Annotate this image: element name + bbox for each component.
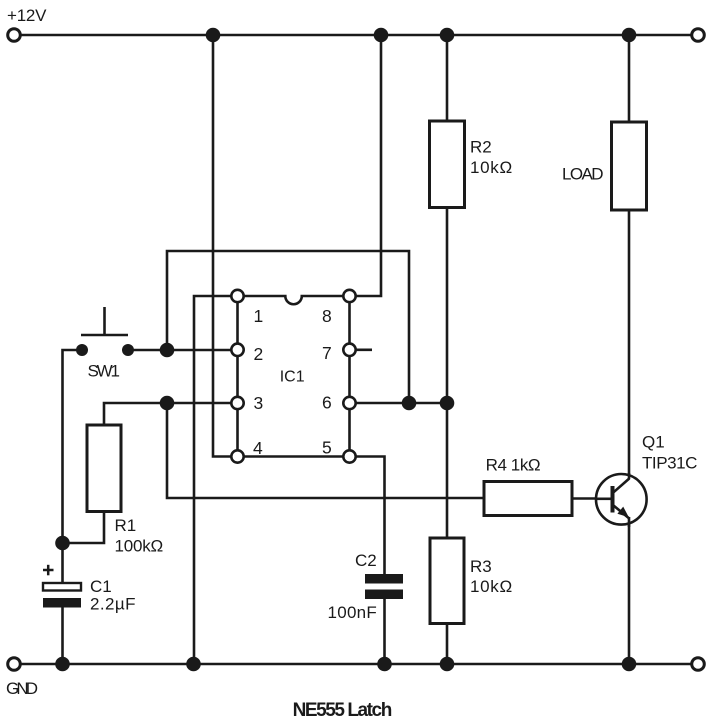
IC1 pin 2 (231, 344, 263, 364)
svg-text:LOAD: LOAD (562, 165, 604, 184)
wire +12V rail to R2 top (446, 35, 449, 121)
svg-text:GND: GND (6, 679, 38, 698)
svg-text:2: 2 (254, 344, 264, 364)
wire C2 bottom to GND rail (383, 599, 386, 664)
transistor Q1 (595, 433, 697, 528)
wire R4 to Q1 base (572, 497, 611, 500)
op-amp IC1 body (555 DIP outline with notch) (238, 296, 350, 457)
svg-text:C2: C2 (355, 551, 377, 570)
svg-text:TIP31C: TIP31C (642, 454, 697, 473)
svg-text:IC1: IC1 (280, 369, 305, 386)
node +12V/LOAD (622, 28, 637, 43)
IC1 pin 7 (322, 343, 356, 363)
wire C1 bottom plate to GND rail (61, 608, 64, 665)
node dots on +12V rail (206, 28, 637, 43)
IC1 pin 5 (322, 437, 356, 462)
wire +12V rail to pin 4 (vertical x=213) (213, 35, 231, 457)
wire pin 7 stub (350, 348, 373, 351)
svg-text:R1: R1 (115, 516, 137, 535)
node GND/C2 (377, 657, 392, 672)
svg-text:2.2µF: 2.2µF (90, 595, 136, 614)
svg-text:R4 1kΩ: R4 1kΩ (486, 456, 541, 475)
node dots on GND rail (55, 657, 636, 672)
load (562, 122, 647, 210)
svg-text:4: 4 (253, 438, 263, 458)
IC1 pin 4 (231, 438, 263, 463)
wire pin 8 to +12V rail (vertical x=381) (350, 35, 382, 296)
IC1 pin 8 (322, 290, 356, 326)
node R1/C1/SW1 (55, 536, 70, 551)
node GND/pin1 (186, 657, 201, 672)
svg-text:3: 3 (254, 393, 264, 413)
wire SW1 right contact to pin 2 (128, 349, 238, 352)
node GND/Q1 emitter (622, 657, 637, 672)
svg-text:10kΩ: 10kΩ (470, 577, 512, 596)
wire pin3 node down and right to R4 (167, 403, 484, 498)
wire SW1 left contact to left vertical (63, 350, 83, 543)
node pin6/R2/R3 (440, 396, 455, 411)
terminal +12V right (692, 29, 705, 42)
terminal GND left (8, 658, 21, 671)
terminal GND right (692, 658, 705, 671)
node R1/pin3 (160, 396, 175, 411)
IC1 pin 6 (322, 393, 356, 413)
wire pin 1 to GND rail (vertical x=194) (194, 296, 238, 664)
node GND/C1 (55, 657, 70, 672)
IC1 pin 3 (231, 393, 263, 413)
node pin6 link (402, 396, 417, 411)
wire R2 bottom to pin6 node and down to R3 top (446, 208, 449, 539)
svg-text:10kΩ: 10kΩ (470, 158, 512, 177)
svg-text:100nF: 100nF (328, 603, 377, 622)
svg-text:5: 5 (322, 437, 332, 457)
node +12V/R2 (440, 28, 455, 43)
wire pin 5 to C2 top (350, 457, 385, 575)
svg-text:100kΩ: 100kΩ (115, 537, 164, 556)
wire R1 top to pin 3 (104, 403, 238, 425)
wire R3 bottom to GND rail (446, 624, 449, 665)
svg-text:R3: R3 (470, 557, 492, 576)
node SW1/pin2 (160, 343, 175, 358)
svg-text:1: 1 (254, 306, 264, 326)
wire C1 node to C1 top plate (61, 543, 64, 583)
svg-text:Q1: Q1 (642, 433, 665, 452)
svg-text:C1: C1 (90, 577, 112, 596)
resistor R1 (87, 425, 163, 556)
terminal +12V left (8, 29, 21, 42)
node +12V/pin8 (374, 28, 389, 43)
wire Q1 emitter to GND rail (628, 524, 631, 664)
wire +12V rail to LOAD top (628, 35, 631, 122)
svg-text:SW1: SW1 (88, 362, 121, 381)
svg-text:+12V: +12V (7, 6, 47, 25)
svg-text:7: 7 (322, 343, 332, 363)
wire bottom GND rail (20, 663, 692, 666)
node +12V/pin4 (206, 28, 221, 43)
svg-text:R2: R2 (470, 138, 492, 157)
node GND/R3 (440, 657, 455, 672)
svg-text:NE555 Latch: NE555 Latch (293, 700, 393, 721)
wire pin2 node up-over to pin6 node (y=251) (167, 251, 409, 403)
wire top +12V rail (20, 34, 692, 37)
capacitor C2 (328, 551, 404, 622)
wire LOAD bottom to Q1 collector (628, 210, 631, 476)
wire R1 bottom to C1 node (63, 512, 105, 544)
svg-text:8: 8 (322, 306, 332, 326)
capacitor C1 (43, 565, 136, 614)
resistor R2 (430, 121, 513, 208)
resistor R3 (430, 538, 512, 624)
svg-text:6: 6 (322, 393, 332, 413)
switch SW1 (76, 307, 134, 381)
IC1 pin 1 (231, 290, 263, 326)
resistor R4 (484, 456, 572, 516)
wire pin 6 to R2/R3 node (350, 402, 448, 405)
